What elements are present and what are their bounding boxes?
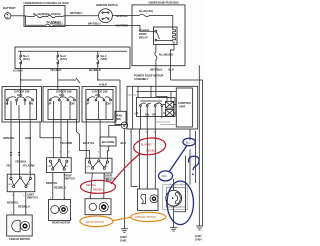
svg-text:No.31(15A): No.31(15A) xyxy=(139,9,153,13)
power roof relay xyxy=(139,27,177,45)
rail switch box xyxy=(115,111,126,124)
svg-text:OFF: OFF xyxy=(86,167,91,169)
red ellipse around RED wires xyxy=(81,180,116,193)
wires L2 to rear motor xyxy=(46,173,66,200)
svg-text:RAIL: RAIL xyxy=(117,114,124,118)
sunroof switch B outer xyxy=(43,87,79,122)
svg-text:UNDER-DASH FUSE BOX: UNDER-DASH FUSE BOX xyxy=(149,2,180,5)
svg-text:BLU/GRN: BLU/GRN xyxy=(102,140,114,144)
svg-text:FRONT MOTOR: FRONT MOTOR xyxy=(86,221,104,224)
svg-text:OFF: OFF xyxy=(8,184,13,186)
linear motor box xyxy=(7,215,33,236)
svg-text:BLK: BLK xyxy=(121,141,127,145)
bus wire inside strip xyxy=(18,50,127,52)
svg-text:S.ROOF SW: S.ROOF SW xyxy=(14,90,30,94)
control unit xyxy=(176,88,192,127)
svg-text:RED/BLU: RED/BLU xyxy=(18,205,30,209)
svg-text:WHT/BLU: WHT/BLU xyxy=(70,11,82,15)
wires below assembly xyxy=(124,122,155,225)
blue question mark xyxy=(189,156,199,175)
wire assembly output right xyxy=(195,131,197,183)
svg-text:No.42(40A): No.42(40A) xyxy=(47,12,61,16)
svg-text:UNDERHOOD FUSE/RELAY BOX: UNDERHOOD FUSE/RELAY BOX xyxy=(24,1,69,5)
blue ellipse closing motor xyxy=(167,181,193,225)
svg-text:IGNITION SWITCH: IGNITION SWITCH xyxy=(96,4,118,7)
L2 label xyxy=(64,174,75,181)
fuse No.31 xyxy=(132,9,173,30)
blue ellipse BLK xyxy=(159,171,173,181)
terminal digits L2 xyxy=(50,152,71,154)
connector label box xyxy=(100,137,116,146)
fuse No.42 xyxy=(47,12,66,18)
motor M circle mid xyxy=(121,122,128,129)
red diagonal line xyxy=(111,154,140,184)
orange ellipse front motor xyxy=(80,216,113,227)
svg-text:DN: DN xyxy=(71,102,75,106)
svg-text:YEL/GRN: YEL/GRN xyxy=(60,141,72,145)
fuse No.1 xyxy=(20,51,30,68)
sunroof switch A outer xyxy=(2,87,42,122)
svg-text:BLU: BLU xyxy=(186,142,191,144)
roof motor assembly label xyxy=(134,74,163,82)
svg-text:0.5 BLU: 0.5 BLU xyxy=(13,69,23,73)
svg-text:BLU/BLK: BLU/BLK xyxy=(89,68,101,72)
svg-text:(10A): (10A) xyxy=(23,57,30,61)
svg-text:S.ROOF SW: S.ROOF SW xyxy=(56,90,72,94)
svg-text:POWER: POWER xyxy=(139,29,149,33)
underhood fuse/relay box xyxy=(24,1,69,27)
rail switch output wire xyxy=(107,125,120,162)
svg-text:ASSEMBLY: ASSEMBLY xyxy=(134,77,149,81)
sunroof switch C outer xyxy=(82,87,116,122)
svg-text:POWER ROOF MOTOR: POWER ROOF MOTOR xyxy=(134,74,163,78)
svg-text:BLK: BLK xyxy=(162,176,167,178)
limit switch label xyxy=(27,193,38,200)
svg-text:BLU/RED: BLU/RED xyxy=(141,144,152,147)
connector ticks xyxy=(10,153,20,156)
fuse No.4 xyxy=(97,51,107,68)
svg-text:RED/BLU: RED/BLU xyxy=(146,150,157,153)
wire labels mid band xyxy=(3,136,126,145)
orange ellipse opening motor xyxy=(131,212,166,221)
svg-text:REAR MOTOR: REAR MOTOR xyxy=(52,221,70,225)
svg-text:BLK: BLK xyxy=(169,68,175,72)
fuse No.36 inside under-dash box xyxy=(155,45,173,67)
wires L1 to linear motor xyxy=(7,192,30,215)
L3 label xyxy=(104,174,115,181)
terminal digits L1 xyxy=(11,172,32,197)
sunroof switch B inner xyxy=(48,90,77,120)
svg-text:WHT/RED: WHT/RED xyxy=(116,23,129,27)
svg-text:WHT/BLU: WHT/BLU xyxy=(88,21,100,25)
svg-text:CONTROL: CONTROL xyxy=(178,101,192,105)
fuse No.2 xyxy=(57,51,67,68)
svg-text:G303: G303 xyxy=(120,235,127,239)
svg-text:RED/YEL: RED/YEL xyxy=(86,184,97,187)
terminal digits M2 xyxy=(50,198,67,200)
switch B output wires xyxy=(53,120,89,162)
under-dash outputs down xyxy=(156,65,203,226)
relay coil K2 xyxy=(166,110,174,117)
svg-text:BLU/YEL: BLU/YEL xyxy=(83,141,95,145)
ground G303 xyxy=(121,225,128,232)
wire BLK/YEL xyxy=(112,14,132,27)
terminal digits M1 xyxy=(11,213,28,215)
blue line xyxy=(170,146,187,172)
svg-text:UP: UP xyxy=(48,102,52,106)
svg-text:LINEAR MOTOR: LINEAR MOTOR xyxy=(9,237,30,241)
svg-text:DN: DN xyxy=(107,102,111,106)
svg-text:G401: G401 xyxy=(195,234,202,238)
svg-text:(10A): (10A) xyxy=(101,57,108,61)
closing motor gray box xyxy=(163,156,188,228)
front motor box xyxy=(85,199,111,215)
sunroof switch A inner xyxy=(5,87,37,120)
junction node at fuse No.1 output xyxy=(20,79,21,80)
svg-text:UP: UP xyxy=(135,112,139,116)
ground G2 xyxy=(170,227,177,231)
svg-text:S.ROOF SW: S.ROOF SW xyxy=(92,90,108,94)
fuse No.57 xyxy=(26,16,66,26)
svg-text:No.41(80A): No.41(80A) xyxy=(33,12,47,16)
svg-text:(10A): (10A) xyxy=(60,57,67,61)
battery B1 xyxy=(3,6,16,19)
svg-text:No.36(10A): No.36(10A) xyxy=(159,53,173,57)
gray lines below assembly xyxy=(127,95,176,125)
svg-text:UP: UP xyxy=(5,102,9,106)
terminal digits L3 xyxy=(89,152,109,154)
limit switch L1 xyxy=(7,174,35,192)
svg-text:GRN/YEL: GRN/YEL xyxy=(3,136,15,140)
bus jogs at y80 xyxy=(21,78,120,111)
rear motor box xyxy=(49,200,71,221)
ground G401 xyxy=(196,226,203,230)
svg-text:YEL/GRN: YEL/GRN xyxy=(23,164,35,168)
svg-text:BATTERY: BATTERY xyxy=(3,6,16,10)
wire WHT/BLU to ignition switch xyxy=(65,11,99,16)
supply wires to switches xyxy=(21,69,98,90)
svg-text:OFF: OFF xyxy=(47,166,52,168)
relay contacts inside assembly xyxy=(133,86,177,129)
svg-text:BLK/YEL: BLK/YEL xyxy=(116,14,128,18)
relay coil output wire xyxy=(171,42,175,66)
switch A output wires xyxy=(11,120,61,178)
svg-text:SW: SW xyxy=(117,117,122,121)
under-dash fuse box xyxy=(132,2,185,66)
red ellipse BLU/RED xyxy=(133,136,167,156)
svg-text:A BLK: A BLK xyxy=(99,83,107,87)
limit switch L2 xyxy=(47,158,72,173)
wire labels under boxes xyxy=(13,68,162,73)
opening motor box xyxy=(138,189,159,211)
switch C output wires xyxy=(86,120,100,159)
wire into relay from left xyxy=(132,25,155,31)
svg-text:G402: G402 xyxy=(120,239,127,243)
wire battery to underhood box xyxy=(11,15,24,17)
svg-text:DN: DN xyxy=(29,102,33,106)
svg-text:SWITCH: SWITCH xyxy=(64,177,75,181)
long fuse strip box xyxy=(15,47,130,69)
relay coil K1 xyxy=(166,101,174,108)
wire WHT/BLU lower run to under-dash box xyxy=(50,21,132,25)
svg-text:YEL/BLK: YEL/BLK xyxy=(15,160,27,164)
orange connector line xyxy=(113,217,131,220)
roof motor assembly box xyxy=(127,86,198,129)
svg-text:SWITCH: SWITCH xyxy=(27,196,38,200)
svg-text:WHT/BLU: WHT/BLU xyxy=(50,21,62,25)
svg-text:G404: G404 xyxy=(195,238,202,242)
wires L3 to front motor xyxy=(91,173,105,199)
svg-text:RED/YEL: RED/YEL xyxy=(46,181,58,185)
svg-text:YEL/BLK: YEL/BLK xyxy=(50,68,62,72)
wire BLU net control unit to closing motor xyxy=(189,129,191,185)
svg-text:YEL: YEL xyxy=(6,164,12,168)
svg-text:GRN: GRN xyxy=(25,136,31,140)
svg-text:RELAY: RELAY xyxy=(139,36,148,40)
blue small ellipse BLU xyxy=(183,138,195,146)
limit switch L3 xyxy=(85,158,112,173)
svg-text:UNIT: UNIT xyxy=(179,105,186,109)
junction node at fuse No.4 output xyxy=(97,79,98,80)
svg-text:RED/YEL: RED/YEL xyxy=(7,201,19,205)
sunroof switch C inner xyxy=(86,90,114,120)
svg-text:RED/BLU: RED/BLU xyxy=(93,189,104,192)
ignition switch xyxy=(96,4,118,22)
wire labels above limit switch L1 xyxy=(6,160,35,168)
svg-text:ROOF: ROOF xyxy=(139,32,147,36)
fuse No.41 xyxy=(24,12,48,18)
svg-text:OPENING MOTOR: OPENING MOTOR xyxy=(135,216,156,219)
